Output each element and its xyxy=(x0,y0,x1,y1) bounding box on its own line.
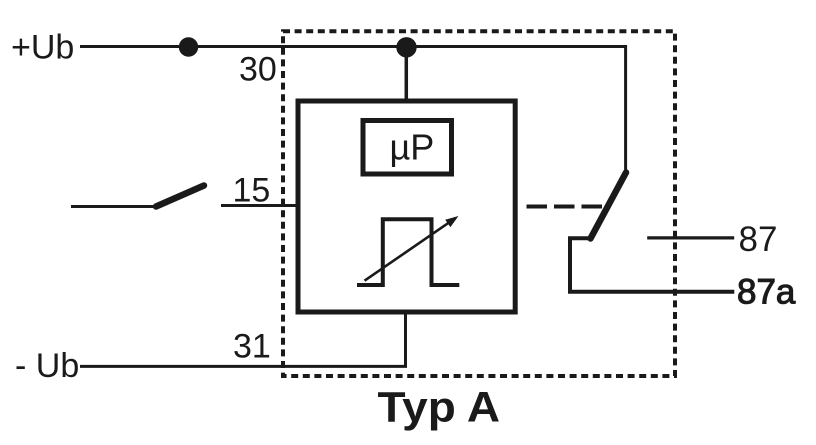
svg-text:- Ub: - Ub xyxy=(15,347,79,385)
adjustable pulse symbol (square wave) xyxy=(357,219,459,285)
svg-text:15: 15 xyxy=(233,171,271,209)
microprocessor box µP xyxy=(363,121,452,175)
svg-text:30: 30 xyxy=(239,51,277,89)
svg-text:Typ A: Typ A xyxy=(378,384,501,432)
svg-text:31: 31 xyxy=(233,328,271,366)
dashed actuation link to relay contact xyxy=(527,205,603,209)
wire pin 31 / -Ub return xyxy=(80,314,406,366)
svg-text:+Ub: +Ub xyxy=(11,28,74,66)
switch S1 lead wire xyxy=(71,205,154,208)
relay contact armature xyxy=(591,173,627,239)
junction dot left on +Ub wire xyxy=(179,37,198,56)
svg-text:87: 87 xyxy=(739,220,778,259)
wire pin 87 xyxy=(647,236,734,239)
adjustment arrow shaft xyxy=(365,222,450,281)
wire +Ub supply (pin 30) with corner down to relay contact xyxy=(80,47,626,172)
wire pin 15 into controller box xyxy=(221,204,296,207)
adjustment arrow head xyxy=(445,216,458,227)
wire pin30 down into controller box xyxy=(405,47,409,99)
relay outline (dashed enclosure) xyxy=(283,31,675,376)
controller box U1 xyxy=(298,101,515,312)
svg-text:µP: µP xyxy=(390,127,435,168)
switch S1 lever xyxy=(156,186,204,207)
relay contact terminals bracket (87a throw) xyxy=(570,238,734,291)
junction dot pin 30 branch xyxy=(396,37,416,57)
svg-text:87a: 87a xyxy=(737,272,796,311)
